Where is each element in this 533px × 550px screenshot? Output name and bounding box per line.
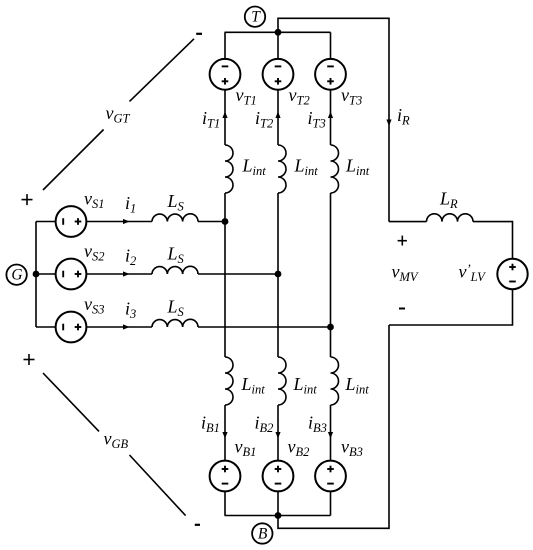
wire row3 right: [198, 326, 331, 328]
voltage source vB1: [210, 461, 241, 492]
inductor Lint top branch2: [278, 145, 286, 193]
wire row1 left: [36, 221, 56, 223]
svg-text:vS3: vS3: [84, 294, 105, 317]
svg-text:Lint: Lint: [345, 156, 370, 179]
svg-text:vGB: vGB: [104, 429, 129, 452]
wire branch3 lower: [330, 405, 332, 461]
svg-text:iT1: iT1: [202, 108, 220, 131]
svg-text:Lint: Lint: [241, 374, 266, 397]
svg-text:vS1: vS1: [84, 189, 105, 212]
svg-text:vB1: vB1: [235, 437, 257, 460]
current arrow iR: [386, 120, 391, 127]
wire branch3 from top bus to source vT3: [330, 32, 332, 59]
node G: [6, 265, 26, 285]
voltage source vS1: [56, 206, 87, 237]
svg-text:iB3: iB3: [308, 413, 327, 436]
wire row2 right: [198, 273, 278, 275]
current arrow iT3: [328, 112, 333, 119]
svg-text:i2: i2: [125, 246, 136, 269]
voltage source vB3: [315, 461, 346, 492]
wire branch1 below vT1: [224, 90, 226, 145]
voltage source vS2: [56, 259, 87, 290]
svg-text:Lint: Lint: [345, 374, 370, 397]
plus sign vMV: [398, 236, 407, 246]
svg-text:vT1: vT1: [236, 85, 257, 108]
inductor Lint bottom branch1: [225, 357, 233, 405]
minus sign vGT: [196, 33, 202, 35]
svg-text:LS: LS: [167, 297, 185, 320]
svg-text:iB1: iB1: [201, 413, 220, 436]
wire branch2 from top bus to source vT2: [277, 32, 279, 59]
svg-text:LS: LS: [167, 244, 185, 267]
svg-text:iT2: iT2: [255, 108, 273, 131]
inductor LS row1: [152, 214, 198, 222]
svg-text:Lint: Lint: [294, 156, 319, 179]
voltage source vB2: [263, 461, 294, 492]
svg-text:iT3: iT3: [308, 108, 326, 131]
wire branch3 middle: [330, 193, 332, 357]
wire branch2 middle: [277, 193, 279, 357]
wire row3 left: [36, 326, 56, 328]
wire branch1 middle: [224, 193, 226, 357]
wire branch2 below vT2: [277, 90, 279, 145]
junction dot top bus: [275, 29, 282, 36]
voltage source vT2: [263, 59, 294, 90]
current arrow iB1: [222, 432, 227, 439]
inductor Lint top branch1: [225, 145, 233, 193]
plus sign vGB: [24, 354, 35, 365]
svg-text:v’LV: v’LV: [459, 262, 487, 285]
minus sign vMV: [399, 308, 405, 310]
wire branch1 lower: [224, 405, 226, 461]
svg-text:i3: i3: [125, 299, 136, 322]
current arrow i3: [123, 324, 130, 329]
wire left bus: [35, 222, 37, 328]
wire bottom bus: [225, 515, 331, 517]
wire top bus: [225, 31, 331, 33]
svg-text:vB2: vB2: [288, 437, 310, 460]
voltage source vLV: [497, 259, 527, 289]
svg-text:LR: LR: [439, 189, 458, 212]
junction dot row2 branch2: [275, 271, 282, 278]
wire row1 right: [198, 221, 225, 223]
wire from top junction up and right to iR branch: [278, 18, 389, 221]
wire row2 left: [36, 273, 56, 275]
svg-text:vGT: vGT: [106, 103, 131, 126]
svg-text:LS: LS: [167, 191, 185, 214]
inductor LS row3: [152, 319, 198, 327]
wire LR row right down to source: [473, 222, 513, 259]
current arrow i2: [123, 271, 130, 276]
inductor LR: [427, 214, 474, 222]
voltage source vT3: [315, 59, 346, 90]
node B: [252, 523, 272, 543]
wire from vLV bottom left to iR wire: [389, 289, 513, 325]
svg-text:vT2: vT2: [289, 85, 310, 108]
wire branch3 below vT3: [330, 90, 332, 145]
svg-text:G: G: [11, 267, 22, 284]
wire branch3 bottom: [330, 491, 332, 515]
svg-text:Lint: Lint: [242, 156, 267, 179]
current arrow iT2: [275, 112, 280, 119]
wire branch1 from top bus to source vT1: [224, 32, 226, 59]
voltage source vS3: [56, 312, 87, 343]
svg-text:T: T: [251, 9, 261, 26]
svg-text:vMV: vMV: [392, 262, 419, 285]
current arrow iB3: [328, 432, 333, 439]
svg-text:B: B: [258, 525, 268, 542]
junction dot bottom bus: [275, 512, 282, 519]
svg-text:iB2: iB2: [255, 413, 274, 436]
svg-text:vT3: vT3: [341, 85, 362, 108]
plus sign vGT: [22, 194, 33, 205]
junction dot row1 branch1: [222, 218, 229, 225]
wire row3 mid: [86, 326, 152, 328]
wire right side down to bottom junction: [278, 325, 389, 528]
inductor LS row2: [152, 266, 198, 274]
wire branch2 lower: [277, 405, 279, 461]
svg-text:vS2: vS2: [84, 241, 105, 264]
voltage source vT1: [210, 59, 241, 90]
inductor Lint bottom branch2: [278, 357, 286, 405]
inductor Lint bottom branch3: [331, 357, 339, 405]
current arrow iT1: [222, 112, 227, 119]
wire branch1 bottom: [224, 491, 226, 515]
current arrow i1: [123, 219, 130, 224]
wire branch2 bottom: [277, 491, 279, 515]
current arrow iB2: [275, 432, 280, 439]
measurement line vGT: [43, 39, 194, 190]
measurement line vGB: [43, 373, 186, 516]
svg-text:i1: i1: [125, 193, 136, 216]
node T: [245, 7, 265, 27]
junction dot G bus: [33, 271, 40, 278]
inductor Lint top branch3: [331, 145, 339, 193]
wire row2 mid: [86, 273, 152, 275]
svg-text:Lint: Lint: [293, 374, 318, 397]
svg-text:vB3: vB3: [341, 437, 363, 460]
wire row1 mid: [86, 221, 152, 223]
junction dot row3 branch3: [327, 324, 334, 331]
svg-text:iR: iR: [397, 105, 410, 128]
minus sign vGB: [195, 524, 200, 526]
wire LR row left: [389, 221, 427, 223]
